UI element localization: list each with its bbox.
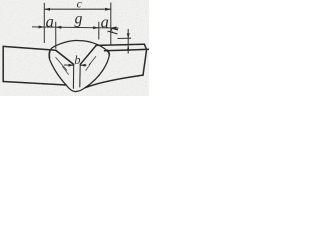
arrow g left — [56, 26, 62, 29]
right plate end-top edge — [144, 44, 146, 50]
arrow a left outer — [39, 26, 45, 29]
fusion texture stroke left lower — [63, 67, 69, 75]
arrow c left — [44, 8, 50, 11]
left groove face — [56, 50, 74, 64]
root gap left edge — [72, 64, 74, 88]
root gap right edge — [79, 64, 81, 87]
extension line groove left — [55, 22, 57, 49]
arrow b left (points right at gap) — [69, 64, 74, 67]
dimension line h — [127, 29, 129, 54]
arrow c right — [105, 8, 111, 11]
dimension b left arrow line — [64, 64, 74, 66]
extension line c right / weld edge right — [110, 3, 112, 45]
cap right dip overdraw — [108, 50, 110, 55]
dimension b right arrow line — [81, 64, 87, 66]
left plate top edge — [3, 46, 56, 50]
arrow h bottom (points up to plate surface) — [127, 46, 130, 51]
right plate bottom edge — [85, 75, 143, 88]
fusion texture stroke right — [89, 57, 96, 65]
cap left dip overdraw — [48, 51, 51, 58]
weld outline: left fusion, cap, right fusion — [49, 40, 109, 87]
left plate left edge — [2, 46, 4, 81]
dimension h extension tick — [118, 37, 132, 39]
extension line c left — [43, 3, 45, 43]
arrow h top (points down to tick) — [127, 33, 130, 38]
extension line groove right — [98, 22, 100, 40]
root bead — [66, 85, 85, 92]
dimension line c — [44, 8, 111, 10]
arrow b right (points left at gap) — [80, 64, 85, 67]
dimension line a g a — [32, 27, 119, 28]
left plate bottom edge — [3, 82, 66, 86]
fusion texture stroke right lower — [86, 64, 91, 71]
fusion texture stroke left — [56, 58, 67, 71]
right groove face — [80, 45, 96, 64]
arrow a right outer — [111, 26, 117, 29]
right plate front-right edge — [143, 50, 147, 75]
right plate back-top edge — [96, 44, 144, 45]
arrow g right — [93, 26, 99, 29]
right plate front-top edge — [105, 49, 150, 51]
